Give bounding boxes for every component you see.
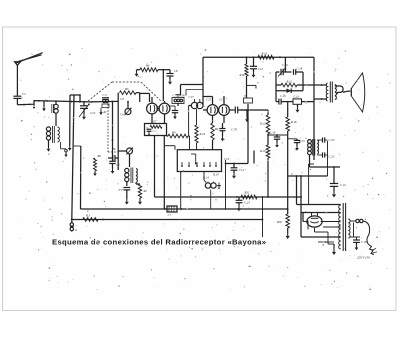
svg-text:C13: C13 xyxy=(224,157,230,161)
svg-text:C.18: C.18 xyxy=(297,67,303,71)
svg-text:R 10: R 10 xyxy=(261,52,268,56)
svg-text:220 V-250: 220 V-250 xyxy=(357,256,370,260)
svg-text:C12: C12 xyxy=(258,67,264,71)
svg-text:R17: R17 xyxy=(214,127,220,131)
svg-text:X7: X7 xyxy=(152,120,157,124)
svg-text:R6: R6 xyxy=(111,147,116,151)
svg-text:Esquema de conexiones del Radi: Esquema de conexiones del Radiorreceptor… xyxy=(52,238,266,247)
svg-text:R.22: R.22 xyxy=(259,122,266,126)
svg-text:C 26: C 26 xyxy=(361,240,367,244)
svg-text:C 22: C 22 xyxy=(340,183,346,187)
svg-text:C14: C14 xyxy=(239,168,245,172)
svg-text:C15: C15 xyxy=(206,98,212,102)
svg-text:C.16: C.16 xyxy=(282,63,288,67)
svg-text:R9: R9 xyxy=(171,131,176,135)
svg-text:R.16: R.16 xyxy=(199,132,206,136)
svg-text:C12: C12 xyxy=(90,111,96,115)
svg-text:C8: C8 xyxy=(174,69,178,73)
svg-text:C.1b: C.1b xyxy=(294,96,300,99)
svg-text:R16: R16 xyxy=(239,73,245,77)
svg-text:C.5: C.5 xyxy=(103,93,108,97)
svg-text:R32: R32 xyxy=(244,191,250,195)
svg-text:..: .. xyxy=(75,223,77,227)
svg-text:C.21: C.21 xyxy=(329,155,335,159)
svg-text:R3: R3 xyxy=(124,87,129,91)
svg-text:R1: R1 xyxy=(103,111,108,114)
svg-text:R.15: R.15 xyxy=(298,139,305,143)
svg-text:C.18: C.18 xyxy=(270,131,276,135)
svg-text:R8: R8 xyxy=(97,154,102,158)
svg-text:R.12: R.12 xyxy=(286,80,293,84)
svg-text:C9: C9 xyxy=(120,97,124,101)
svg-text:R2: R2 xyxy=(143,189,148,193)
svg-text:x x: x x xyxy=(167,213,172,217)
svg-text:C.23: C.23 xyxy=(329,138,335,142)
svg-text:R.14: R.14 xyxy=(202,176,209,180)
svg-text:C.70: C.70 xyxy=(231,128,237,132)
svg-text:C17: C17 xyxy=(189,95,195,99)
svg-text:R4: R4 xyxy=(145,64,150,68)
svg-text:R.10: R.10 xyxy=(212,173,219,177)
svg-text:R.18: R.18 xyxy=(290,120,297,124)
svg-text:R30: R30 xyxy=(276,220,282,224)
svg-text:R.10: R.10 xyxy=(259,149,266,153)
svg-text:C.24: C.24 xyxy=(244,201,250,205)
svg-text:F F: F F xyxy=(118,188,124,192)
svg-text:R.5: R.5 xyxy=(85,214,91,218)
svg-text:C.19: C.19 xyxy=(280,94,286,98)
svg-text:C.?: C.? xyxy=(153,130,158,133)
svg-text:C10: C10 xyxy=(120,113,126,117)
